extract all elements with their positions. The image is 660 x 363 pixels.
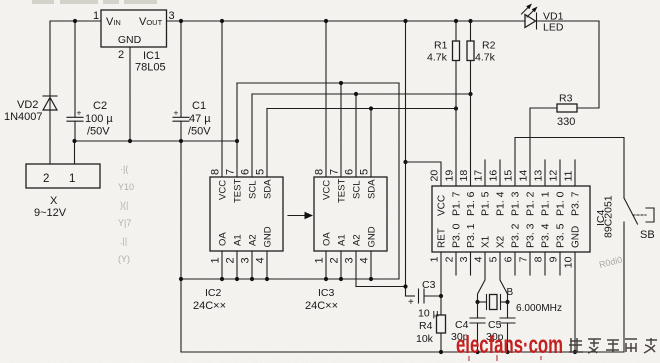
svg-text:+: + [408,297,414,308]
IC4 microcontroller box [432,186,590,252]
wire +5V vertical feed to IC4 [405,21,407,296]
IC4 pin 10 GND [563,226,582,352]
svg-text:3: 3 [169,10,175,22]
svg-text:C2: C2 [93,100,107,112]
svg-text:X: X [50,195,58,207]
svg-text:3: 3 [240,257,252,263]
svg-text:TEST: TEST [233,179,244,203]
svg-text:1N4007: 1N4007 [4,111,43,123]
IC4 pin 1 RET reset [429,228,448,296]
svg-text:2: 2 [118,49,124,61]
svg-text:GND: GND [367,226,378,247]
IC3 pin 3 A2 strapped to +5V [344,234,406,286]
wire IC1 GND pin 2 to ground line [129,47,131,141]
IC4 pin 12 P1.0 [548,160,567,216]
svg-text:4: 4 [473,256,485,262]
svg-text:7: 7 [225,169,237,175]
svg-text:A1: A1 [233,234,244,246]
IC2 pin 5 SDA [255,109,274,200]
IC3 EEPROM box [314,177,387,251]
junction IC3 pin1 [324,277,328,281]
junction rail IC3 VCC [324,19,328,23]
IC4 pin 4 X1 to crystal [473,235,492,302]
svg-text:2: 2 [329,257,341,263]
svg-text:elecfans·com: elecfans·com [456,331,563,359]
junction RST node [439,294,443,298]
svg-text:15: 15 [503,170,515,182]
svg-text:6.000MHz: 6.000MHz [516,302,562,314]
IC4 pin 5 X2 to crystal [488,235,508,302]
wire SCL bus [252,93,471,95]
IC4 pin 15 P1.3 [503,170,522,216]
svg-text:P1. 3: P1. 3 [510,191,522,216]
svg-text:2: 2 [225,257,237,263]
svg-text:+: + [174,108,179,118]
svg-text:1: 1 [69,173,75,185]
wire VD2 anode to connector X pin 2 [49,110,51,164]
junction IC3 SCL on bus [354,92,358,96]
junction rail R1 [454,19,458,23]
svg-text:330: 330 [557,116,575,128]
IC2 pin 1 OA [210,232,229,279]
svg-text:P3. 1: P3. 1 [465,223,477,248]
IC3 pin 1 OA [314,232,333,279]
faint top edge ghost text [32,0,157,4]
svg-text:8: 8 [533,256,545,262]
junction rail R2 [468,19,472,23]
svg-text:C3: C3 [422,279,436,291]
IC4 pin 11 P3.7 [563,160,582,216]
svg-text:P1. 5: P1. 5 [480,191,492,216]
svg-text:R1: R1 [434,40,448,52]
svg-text:IC1: IC1 [143,50,160,62]
IC4 pin 19 P1.7 SDA [444,109,463,217]
svg-text:4.7k: 4.7k [475,52,496,64]
IC2 EEPROM box [210,177,283,251]
svg-text:IC3: IC3 [318,287,335,299]
IC4 pin 18 P1.6 SCL [458,94,477,216]
svg-text:)(|: )(| [120,200,128,210]
junction C1 ground [179,139,183,143]
wire C1 down to ground bus and bottom rail corner [180,121,182,352]
capacitor C5 [500,302,515,352]
IC4 pin 8 P3.4 [533,223,552,275]
junction IC2 pin1 [220,277,224,281]
svg-text:9~12V: 9~12V [34,207,67,219]
switch SB push button [624,198,654,352]
svg-text:.||: .|| [120,236,127,246]
junction SCL R2 pulled up [468,92,472,96]
svg-text:TEST: TEST [337,179,348,203]
IC2 pin 8 VCC [210,21,229,200]
IC2 pin 2 A1 [225,234,244,279]
svg-text:R2: R2 [482,40,496,52]
svg-text:24C××: 24C×× [193,300,226,312]
svg-text:1: 1 [210,257,222,263]
svg-text:8: 8 [314,169,326,175]
svg-text:18: 18 [458,170,470,182]
svg-text:(Y): (Y) [118,254,130,264]
svg-text:P1. 1: P1. 1 [540,191,552,216]
IC2 pin 7 TEST [225,83,244,203]
svg-text:14: 14 [518,170,530,182]
watermark chinese glyph strokes [569,338,657,353]
svg-text:P1. 0: P1. 0 [555,191,567,216]
wire VIN rail from VD2 to IC1 pin 1 [50,21,101,95]
IC4 pin 7 P3.3 [518,223,537,275]
svg-text:5: 5 [359,169,371,175]
junction rail C1 [179,19,183,23]
svg-text:C4: C4 [455,319,469,331]
svg-text:17: 17 [473,170,485,182]
junction +5V branch to IC4 VCC [403,160,407,164]
wire TEST bus [237,82,399,84]
capacitor C1 [173,21,189,121]
svg-text:6: 6 [503,256,515,262]
svg-text:6: 6 [344,169,356,175]
wire SDA bus [267,108,456,110]
IC2 pin 4 GND [255,226,274,279]
svg-text:8: 8 [210,169,222,175]
svg-text:1: 1 [429,256,441,262]
svg-text:VD2: VD2 [17,99,38,111]
svg-text:P1. 2: P1. 2 [525,191,537,216]
IC2 pin 6 SCL [240,94,259,199]
svg-text:OA: OA [322,232,333,246]
svg-text:16: 16 [488,170,500,182]
wire branch to IC4 pin 20 VCC [406,162,442,186]
IC3 pin 4 GND [359,226,378,279]
IC3 pin 5 SDA [359,109,378,200]
junction X2 C5 node [505,300,509,304]
svg-text:SDA: SDA [367,179,378,199]
svg-text:13: 13 [533,170,545,182]
svg-text:VCC: VCC [218,180,229,200]
junction IC3 pin4 [369,277,373,281]
wire ground bus under IC2 IC3 [181,278,399,280]
svg-text:C1: C1 [192,100,206,112]
junction IC2 pin2 [235,277,239,281]
wire LED cathode down right side to R3 [577,21,599,108]
ground line under IC1 [75,140,238,142]
wire R3 to IC4 pin 14 [530,108,557,186]
junction R4 ground [439,350,443,354]
junction IC3 pin2 [339,277,343,281]
junction X1 C4 node [475,300,479,304]
svg-text:B: B [507,287,514,298]
svg-text:9: 9 [548,256,560,262]
faint scan ghost column [118,164,134,264]
wire X pin 1 to ground line [74,141,76,164]
svg-text:A2: A2 [248,234,259,246]
wire TEST bus down leg to ground bus [398,83,400,279]
resistor R3 [557,104,577,112]
junction ground bus left [179,277,183,281]
svg-text:OA: OA [218,232,229,246]
arrow from IC2 to IC3 [288,212,313,220]
svg-text:2: 2 [444,256,456,262]
svg-text:A1: A1 [337,234,348,246]
resistor R1 pull-up [453,21,460,109]
junction rail +5V feed [403,19,407,23]
junction TEST line ground [235,139,239,143]
IC4 pin 16 P1.4 [488,160,507,216]
svg-text:P3. 7: P3. 7 [570,191,582,216]
svg-text:P3. 3: P3. 3 [525,223,537,248]
svg-text:100 µ: 100 µ [85,113,113,125]
svg-text:P3. 2: P3. 2 [510,223,522,248]
svg-text:X1: X1 [481,235,492,248]
IC4 pin 3 P3.1 [458,223,477,275]
svg-text:10 µ: 10 µ [418,308,439,320]
diode VD2 [43,95,57,110]
svg-text:·|(: ·|( [120,164,128,174]
svg-text:3: 3 [458,256,470,262]
IC4 pin 2 P3.0 [444,223,463,275]
svg-text:/50V: /50V [87,126,110,138]
junction IC2 pin4 [265,277,269,281]
svg-text:SCL: SCL [248,181,259,199]
IC3 pin 2 A1 [329,234,348,279]
svg-text:4: 4 [359,257,371,263]
svg-text:IC2: IC2 [205,287,222,299]
svg-text:47 µ: 47 µ [189,113,211,125]
svg-text:20: 20 [429,170,441,182]
IC3 pin 7 TEST [329,83,348,203]
svg-text:RET: RET [437,228,448,248]
svg-text:6: 6 [240,169,252,175]
junction X/C2 ground [72,139,76,143]
connector X 9~12V [26,164,100,188]
svg-text:7: 7 [518,256,530,262]
junction C5 ground [505,350,509,354]
wire IC4 pin 15 to switch SB [515,138,624,199]
resistor R4 [437,296,446,352]
LED VD1 [522,4,600,30]
junction IC1 GND [128,139,132,143]
IC4 pin 9 P3.5 [548,223,567,275]
svg-text:X2: X2 [496,235,507,248]
junction +5V strap IC3 A2 [403,284,407,288]
svg-text:10k: 10k [416,333,434,345]
svg-text:VCC: VCC [322,180,333,200]
svg-text:A2: A2 [352,234,363,246]
junction IC3 SDA on bus [369,106,373,110]
junction C4 ground [475,350,479,354]
IC4 pin 20 VCC [429,170,448,216]
IC3 pin 6 SCL [344,94,363,199]
IC2 pin 3 A2 [240,234,259,279]
crystal B [478,295,508,310]
svg-text:P3. 5: P3. 5 [555,223,567,248]
svg-text:19: 19 [444,170,456,182]
wire bottom ground rail [181,351,624,353]
svg-text:4.7k: 4.7k [427,52,448,64]
IC1 regulator 78L05 box [101,10,167,47]
svg-text:P1. 7: P1. 7 [451,191,463,216]
svg-text:5: 5 [255,169,267,175]
svg-text:Y10: Y10 [118,182,134,192]
svg-text:GND: GND [571,226,582,248]
svg-text:78L05: 78L05 [135,62,166,74]
resistor R2 pull-up [467,21,474,94]
svg-text:7: 7 [329,169,341,175]
svg-text:89C2051: 89C2051 [603,195,615,238]
wire VOUT +5V rail [167,20,526,22]
svg-text:2: 2 [43,173,49,185]
svg-text:C5: C5 [488,319,502,331]
svg-text:VOUT: VOUT [139,16,163,28]
svg-text:4: 4 [255,257,267,263]
watermark red drip marks [469,355,541,361]
svg-text:5: 5 [488,256,500,262]
svg-text:SDA: SDA [263,179,274,199]
svg-text:R3: R3 [559,93,573,105]
svg-text:Y|7: Y|7 [118,218,131,228]
IC3 pin 8 VCC [314,21,333,200]
svg-text:GND: GND [118,34,142,46]
svg-text:24C××: 24C×× [305,300,338,312]
svg-text:+: + [77,108,82,118]
svg-text:SB: SB [640,229,655,241]
junction IC3 TEST on bus [339,81,343,85]
junction rail C2 [73,19,77,23]
junction SDA R1 pulled up [454,106,458,110]
IC4 pin 13 P1.1 [533,160,552,216]
svg-text:12: 12 [548,170,560,182]
svg-text:/50V: /50V [188,126,211,138]
svg-text:3: 3 [344,257,356,263]
svg-text:P1. 4: P1. 4 [495,191,507,216]
capacitor C4 [470,302,485,352]
IC4 pin 14 P1.2 [518,170,537,216]
svg-text:VIN: VIN [106,16,121,28]
IC4 pin 6 P3.2 [503,223,522,275]
svg-text:P1. 6: P1. 6 [465,191,477,216]
svg-text:VCC: VCC [437,195,448,216]
svg-text:P3. 4: P3. 4 [540,223,552,248]
svg-text:GND: GND [263,226,274,247]
junction rail IC2 VCC [220,19,224,23]
junction IC2 pin3 [250,277,254,281]
svg-text:LED: LED [543,22,564,34]
svg-text:P3. 0: P3. 0 [451,223,463,248]
capacitor C2 [67,21,83,141]
svg-text:11: 11 [563,170,575,181]
junction IC4 GND ground [573,350,577,354]
svg-text:R4: R4 [419,320,433,332]
IC4 pin 17 P1.5 [473,160,492,216]
capacitor C3 reset [406,289,442,308]
svg-text:1: 1 [314,257,326,263]
svg-text:10: 10 [563,256,575,268]
svg-text:1: 1 [93,10,99,22]
svg-text:SCL: SCL [352,181,363,199]
